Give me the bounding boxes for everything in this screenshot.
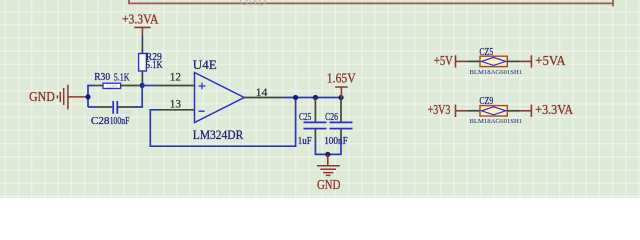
op-amp U4E	[193, 58, 244, 142]
svg-text:1uF: 1uF	[298, 135, 312, 147]
capacitor C25	[298, 111, 327, 147]
wire	[520, 60, 532, 62]
node (feedback junction)	[293, 95, 298, 100]
svg-text:U4E: U4E	[193, 58, 217, 72]
svg-text:GND: GND	[317, 177, 340, 192]
pin (CZ5 pin 2)	[507, 60, 519, 62]
pin (C25 pin 2)	[314, 129, 316, 140]
svg-text:13: 13	[170, 97, 181, 111]
wire	[141, 37, 143, 42]
pin (C28 pin 2)	[118, 106, 136, 108]
pin (C26 pin 1)	[340, 98, 342, 122]
svg-text:14: 14	[256, 85, 268, 99]
svg-text:BLM18AG601SH1: BLM18AG601SH1	[469, 69, 522, 76]
pin (CZ5 pin 1)	[468, 60, 478, 62]
svg-text:+3.3VA: +3.3VA	[122, 11, 159, 26]
pin 14 (op-amp output)	[244, 97, 283, 99]
svg-text:5.1K: 5.1K	[146, 59, 163, 71]
svg-text:BLM18AG601SH1: BLM18AG601SH1	[469, 118, 522, 125]
svg-text:1206: 1206	[106, 85, 118, 90]
pin (C26 pin 2)	[340, 129, 342, 140]
svg-text:R30: R30	[94, 71, 110, 83]
svg-text:C26: C26	[325, 111, 338, 123]
wire (C28 left branch)	[88, 106, 97, 108]
pin (CZ9 pin 1)	[468, 110, 478, 112]
svg-text:GND: GND	[29, 89, 55, 104]
pin (R29 pin 1)	[141, 41, 143, 54]
svg-text:1.65V: 1.65V	[327, 71, 356, 86]
capacitor C28	[91, 101, 133, 127]
node (C25 junction)	[313, 95, 318, 100]
power port +3.3VA	[122, 11, 159, 37]
resistor R29	[139, 51, 163, 71]
power port +3V3	[428, 102, 468, 117]
power port +5V	[434, 53, 468, 68]
power port GND (left)	[29, 85, 86, 110]
power port GND (bottom earth)	[317, 154, 340, 192]
wire	[141, 81, 143, 86]
sheet border (bottom edge of cropped rectangle)	[129, 0, 613, 6]
pin (C28 pin 1)	[97, 106, 112, 108]
svg-text:GND: GND	[240, 0, 267, 11]
wire	[142, 85, 155, 87]
capacitor C26	[324, 111, 352, 147]
power port 1.65V	[327, 71, 356, 98]
pin 12 (op-amp + input)	[156, 85, 195, 87]
svg-text:C25: C25	[299, 111, 312, 123]
pin (C25 pin 1)	[314, 98, 316, 122]
ferrite bead CZ9	[469, 95, 522, 125]
svg-text:+5VA: +5VA	[535, 53, 566, 68]
resistor R30	[94, 71, 129, 90]
node A (R29/R30/C28 junction)	[140, 83, 145, 88]
node (ground junction)	[325, 152, 330, 157]
svg-text:+3V3: +3V3	[428, 102, 451, 117]
wire (feedback loop)	[150, 98, 295, 147]
svg-text:100nF: 100nF	[110, 115, 130, 127]
wire (output net)	[283, 97, 341, 99]
wire	[136, 86, 142, 108]
ferrite bead CZ5	[469, 46, 522, 76]
svg-text:+3.3VA: +3.3VA	[535, 102, 573, 117]
node (C26 / 1.65V junction)	[338, 95, 343, 100]
svg-text:C28: C28	[91, 115, 110, 127]
svg-text:12: 12	[170, 70, 181, 84]
power port +3.3VA (right)	[531, 102, 573, 117]
node (GND tap junction)	[85, 94, 90, 99]
wire (left vertical between RC branches)	[88, 86, 93, 108]
pin 13 (op-amp - input)	[160, 109, 195, 111]
svg-text:5.1K: 5.1K	[114, 71, 130, 83]
svg-text:CZ9: CZ9	[479, 95, 493, 107]
wire	[520, 110, 532, 112]
svg-text:100nF: 100nF	[324, 135, 348, 147]
svg-text:+5V: +5V	[434, 53, 453, 68]
wire (cap bottoms to ground)	[315, 140, 341, 154]
pin (CZ9 pin 2)	[507, 110, 519, 112]
svg-text:CZ5: CZ5	[479, 46, 493, 58]
svg-text:LM324DR: LM324DR	[193, 128, 244, 142]
pin (R29 pin 2)	[141, 71, 143, 81]
power port +5VA	[531, 53, 566, 68]
pin (R30 pin 2)	[121, 85, 140, 87]
pin (R30 pin 1)	[93, 85, 103, 87]
